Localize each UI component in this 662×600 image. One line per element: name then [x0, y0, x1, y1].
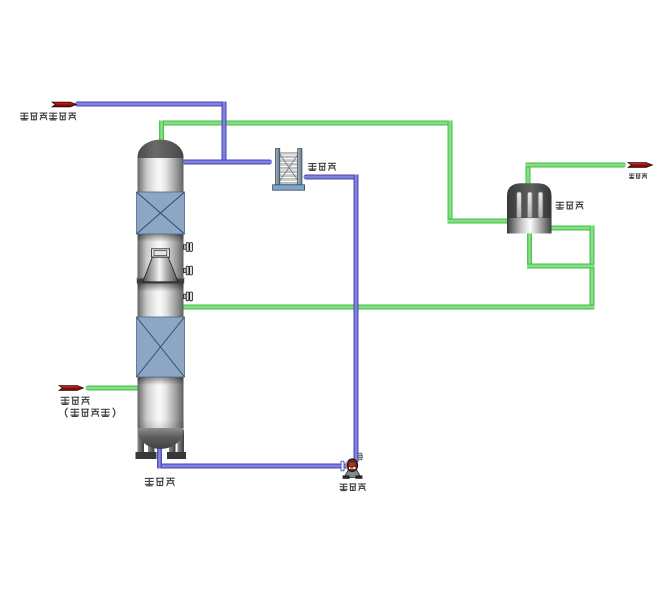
- pump feet: [343, 475, 350, 478]
- wire: green long return line to tower: [180, 305, 595, 310]
- wire: green drain horizontal run: [527, 264, 595, 269]
- label: 氯化氢 outlet top right: [629, 174, 634, 178]
- label: 脱氯塔 tower: [145, 478, 153, 485]
- heat exchanger right rail: [298, 149, 302, 187]
- wire: blue tin chloride feed line top: [75, 102, 227, 107]
- pump base: [344, 469, 361, 478]
- heat exchanger left rail: [275, 149, 279, 187]
- wire: green riser from demister top: [526, 163, 531, 196]
- wire: blue vertical drop of feed line: [222, 102, 227, 165]
- tower legs: [138, 430, 145, 458]
- tower section shadow below lower packing: [138, 377, 184, 385]
- nozzle flange at y=247.0: [184, 243, 193, 252]
- distributor cone: [143, 257, 178, 282]
- demister V1 body: [507, 183, 552, 233]
- flow arrow: tin chloride feed: [52, 102, 77, 107]
- packing section X lower: [137, 317, 185, 377]
- flow arrow: HCl feed: [59, 386, 84, 391]
- wire: blue vertical line to circulation pump: [354, 175, 359, 463]
- label: 氯化亚锡溶液 feed label: [21, 113, 28, 120]
- heat exchanger base plate: [273, 185, 305, 190]
- wire: green demister right outlet: [549, 226, 595, 231]
- label: 除雾器 demister: [556, 202, 563, 209]
- pump casing: [347, 459, 358, 472]
- label: 换热器 heat exchanger: [309, 164, 316, 171]
- nozzle flange at y=296.4: [184, 292, 193, 301]
- nozzle flange at y=270.5: [184, 266, 193, 275]
- demister filter slots: [517, 192, 522, 218]
- tower feet: [136, 452, 147, 459]
- flow arrow: HCl product outlet: [628, 163, 653, 168]
- heat exchanger diagonals: [277, 150, 301, 185]
- wire: blue line tower to heat exchanger: [182, 160, 272, 165]
- wire: green overhead gas line from tower top: [159, 121, 453, 126]
- heat exchanger E1 rungs: [280, 152, 298, 184]
- column: dechlorination tower T1 body: [138, 157, 184, 429]
- tower top dome: [138, 140, 184, 159]
- distributor cone hat: [152, 249, 170, 257]
- tower bottom darkening: [138, 419, 184, 429]
- wire: green downcomer to demister inlet: [448, 121, 453, 224]
- tower section shadow below tray: [138, 284, 184, 292]
- pump discharge pipe over connector: [354, 453, 359, 462]
- wire: blue line from heat exchanger right: [304, 175, 359, 180]
- wire: green product line to HCl outlet: [526, 163, 627, 168]
- tower section shadow below upper packing: [138, 234, 184, 242]
- pump discharge connector: [358, 453, 362, 460]
- label: （含游离氯） feed line2: [65, 408, 67, 417]
- tower support tray band: [137, 278, 184, 284]
- wire: blue tower bottom outlet: [157, 440, 162, 469]
- demister bottom metallic band: [508, 218, 551, 234]
- wire: green riser from tower dome: [159, 121, 164, 151]
- wire: green vertical return at right: [590, 226, 595, 310]
- wire: green horizontal into demister left side: [448, 219, 513, 224]
- pump P1 suction flange: [341, 461, 344, 471]
- tower bottom dome: [138, 428, 184, 449]
- label: 循环泵 pump: [340, 484, 347, 490]
- packing section X upper: [137, 192, 185, 234]
- pump red nameplate: [349, 462, 356, 467]
- label: 氯化氢 feed line1: [61, 397, 69, 404]
- wire: blue pump suction line: [157, 464, 348, 469]
- wire: green demister bottom drain: [527, 230, 532, 269]
- wire: green HCl feed inlet line: [86, 386, 143, 391]
